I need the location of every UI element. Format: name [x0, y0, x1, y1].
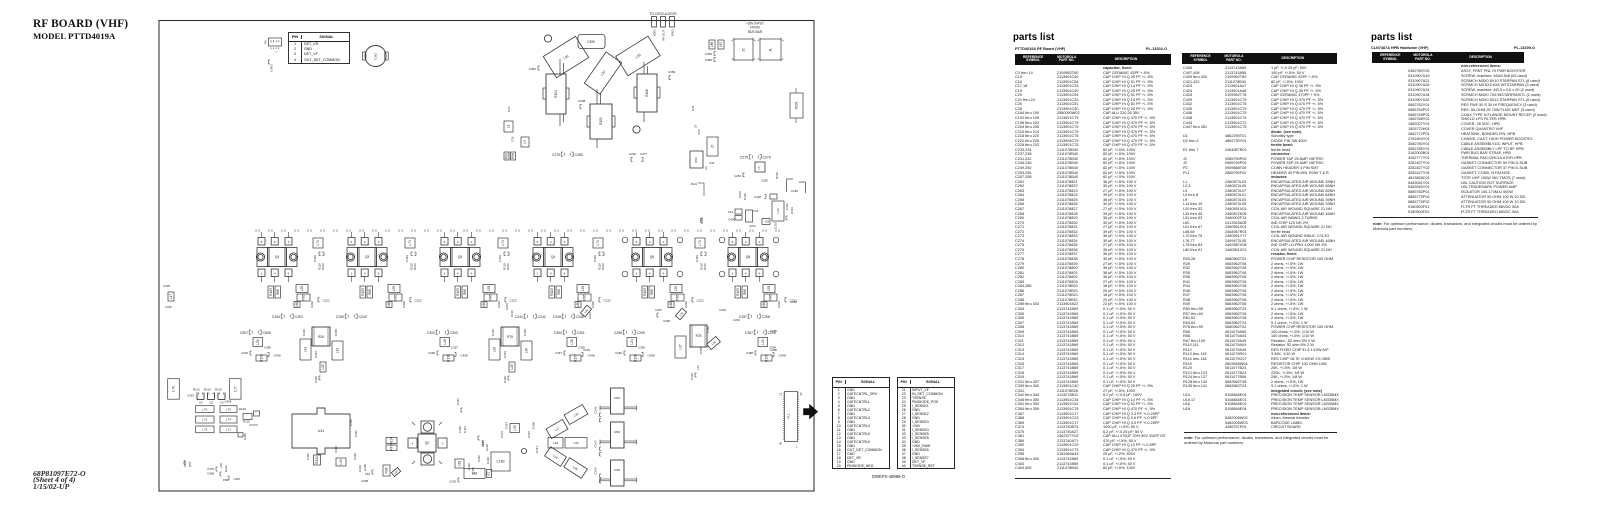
svg-text:R96: R96 — [188, 461, 192, 467]
svg-text:C182: C182 — [790, 300, 797, 304]
svg-text:3: 3 — [759, 240, 761, 244]
svg-text:L15: L15 — [321, 364, 325, 370]
svg-text:R141: R141 — [315, 456, 319, 464]
svg-text:C242: C242 — [538, 315, 546, 319]
svg-text:C401: C401 — [593, 255, 597, 262]
svg-text:C229: C229 — [449, 480, 456, 484]
svg-text:6: 6 — [759, 272, 761, 276]
svg-text:P2: P2 — [264, 40, 268, 44]
svg-text:L14: L14 — [696, 365, 700, 370]
svg-text:5: 5 — [261, 240, 263, 244]
svg-text:R60: R60 — [694, 157, 698, 163]
svg-text:R66: R66 — [557, 289, 561, 295]
svg-text:3: 3 — [471, 240, 473, 244]
svg-text:R138: R138 — [447, 354, 451, 362]
svg-text:L71: L71 — [226, 428, 231, 432]
svg-text:Q4: Q4 — [275, 255, 279, 259]
svg-text:L9: L9 — [694, 124, 698, 128]
svg-text:R125: R125 — [243, 420, 250, 424]
svg-text:L87: L87 — [393, 469, 399, 475]
svg-text:L87: L87 — [719, 42, 723, 48]
svg-text:L18: L18 — [553, 441, 558, 445]
svg-text:C333: C333 — [358, 465, 362, 472]
svg-text:3: 3 — [288, 240, 290, 244]
svg-text:C282: C282 — [761, 179, 768, 183]
svg-text:C238: C238 — [663, 319, 670, 323]
svg-text:C202: C202 — [684, 301, 688, 308]
svg-text:R116: R116 — [601, 263, 605, 270]
svg-text:C353: C353 — [503, 351, 507, 358]
svg-text:C401: C401 — [313, 255, 317, 262]
svg-text:1: 1 — [796, 445, 798, 449]
svg-text:R103: R103 — [736, 288, 740, 296]
svg-text:C357: C357 — [745, 331, 753, 335]
svg-text:L55: L55 — [765, 221, 770, 224]
svg-text:R65: R65 — [676, 294, 680, 300]
svg-text:C299: C299 — [637, 331, 645, 335]
svg-text:L73: L73 — [202, 428, 207, 432]
svg-text:R140: R140 — [260, 354, 264, 362]
svg-text:5: 5 — [636, 240, 638, 244]
svg-text:C401: C401 — [405, 255, 409, 262]
svg-text:L55: L55 — [392, 286, 396, 292]
svg-text:C193: C193 — [774, 222, 778, 229]
svg-text:C398: C398 — [532, 422, 536, 429]
svg-text:C246: C246 — [576, 315, 584, 319]
svg-text:C34: C34 — [709, 161, 715, 165]
svg-text:C339: C339 — [314, 376, 318, 383]
svg-text:R66: R66 — [650, 289, 654, 295]
svg-text:R124: R124 — [239, 407, 246, 411]
svg-text:+: + — [275, 50, 277, 54]
svg-text:C300: C300 — [554, 331, 562, 335]
svg-text:C187: C187 — [165, 305, 172, 309]
svg-text:C421: C421 — [463, 426, 467, 433]
svg-text:C401: C401 — [498, 255, 502, 262]
svg-text:R66: R66 — [463, 289, 467, 295]
svg-text:R116: R116 — [321, 263, 325, 270]
svg-text:C447: C447 — [456, 398, 460, 405]
svg-text:C202: C202 — [497, 301, 501, 308]
svg-text:C273: C273 — [500, 431, 504, 438]
svg-text:L55: L55 — [300, 286, 304, 292]
svg-text:L55: L55 — [767, 286, 771, 292]
svg-text:R66: R66 — [368, 289, 372, 295]
svg-text:C390: C390 — [705, 52, 713, 56]
svg-text:R65: R65 — [394, 294, 398, 300]
svg-text:TO CIRCULATOR: TO CIRCULATOR — [649, 12, 677, 16]
svg-text:L90: L90 — [219, 463, 223, 468]
svg-text:R137: R137 — [574, 354, 578, 362]
svg-text:L92: L92 — [339, 459, 343, 465]
svg-text:C426: C426 — [243, 433, 247, 440]
svg-text:C214: C214 — [588, 312, 592, 319]
svg-text:L74: L74 — [698, 240, 702, 246]
svg-text:J2: J2 — [742, 48, 746, 52]
svg-text:3: 3 — [378, 240, 380, 244]
svg-text:L86: L86 — [710, 42, 714, 48]
svg-text:BUS BAR: BUS BAR — [748, 30, 763, 34]
svg-text:R98: R98 — [385, 467, 389, 473]
svg-text:Q4: Q4 — [551, 255, 555, 259]
svg-text:6: 6 — [564, 272, 566, 276]
svg-text:4: 4 — [754, 39, 756, 43]
svg-text:C344: C344 — [594, 467, 598, 474]
svg-text:4: 4 — [550, 272, 552, 276]
svg-text:C362: C362 — [529, 67, 537, 71]
svg-text:C222: C222 — [510, 299, 518, 303]
svg-text:C4: C4 — [220, 401, 224, 405]
svg-text:L74: L74 — [408, 240, 412, 246]
svg-text:L74: L74 — [596, 240, 600, 246]
svg-text:R66: R66 — [276, 289, 280, 295]
svg-text:2: 2 — [274, 240, 276, 244]
svg-text:L60: L60 — [762, 302, 766, 308]
svg-text:C291: C291 — [583, 348, 591, 352]
svg-text:R105: R105 — [599, 117, 603, 125]
svg-text:C350: C350 — [523, 329, 527, 336]
svg-text:4: 4 — [649, 272, 651, 276]
svg-text:L76: L76 — [172, 386, 176, 392]
svg-text:C222: C222 — [697, 299, 705, 303]
svg-text:R103: R103 — [795, 101, 799, 109]
svg-text:4: 4 — [782, 39, 784, 43]
svg-text:21: 21 — [779, 392, 783, 396]
svg-text:R136: R136 — [634, 354, 638, 362]
svg-text:L74: L74 — [316, 240, 320, 246]
svg-text:C423: C423 — [187, 394, 194, 398]
svg-text:C36: C36 — [691, 105, 695, 111]
svg-text:C358: C358 — [349, 419, 353, 426]
svg-text:C458: C458 — [461, 354, 469, 358]
svg-text:L31: L31 — [563, 54, 570, 60]
svg-text:R91: R91 — [505, 153, 509, 159]
svg-text:L74: L74 — [226, 418, 231, 422]
svg-text:C209: C209 — [363, 464, 367, 471]
svg-text:C275: C275 — [740, 155, 748, 159]
svg-text:2: 2 — [457, 240, 459, 244]
svg-text:C276: C276 — [763, 155, 771, 159]
svg-text:L37: L37 — [679, 344, 683, 350]
svg-text:C407: C407 — [234, 477, 241, 481]
svg-text:R103: R103 — [361, 288, 365, 296]
svg-text:R96: R96 — [511, 153, 515, 159]
svg-text:C488: C488 — [746, 351, 753, 355]
svg-text:C458: C458 — [274, 354, 282, 358]
svg-text:L60: L60 — [482, 302, 486, 308]
svg-text:C457: C457 — [555, 351, 562, 355]
svg-text:C184: C184 — [791, 189, 798, 193]
svg-text:1: 1 — [444, 272, 446, 276]
svg-text:C241: C241 — [515, 315, 523, 319]
svg-text:C202: C202 — [310, 301, 314, 308]
svg-text:C136: C136 — [510, 310, 514, 317]
svg-text:C349: C349 — [302, 329, 306, 336]
svg-text:C279: C279 — [552, 153, 560, 157]
svg-text:C404: C404 — [225, 400, 232, 404]
svg-text:L84: L84 — [365, 472, 370, 476]
svg-text:3: 3 — [663, 240, 665, 244]
svg-text:C281: C281 — [734, 174, 741, 178]
svg-text:C481: C481 — [306, 453, 310, 460]
svg-text:L74: L74 — [501, 240, 505, 246]
svg-text:4: 4 — [364, 272, 366, 276]
svg-text:R135: R135 — [765, 354, 769, 362]
svg-text:C296: C296 — [614, 331, 622, 335]
svg-text:C222: C222 — [604, 299, 612, 303]
svg-text:J1: J1 — [769, 48, 773, 52]
svg-text:C398: C398 — [353, 453, 357, 460]
svg-text:C369: C369 — [668, 70, 676, 74]
svg-text:C365: C365 — [638, 346, 645, 350]
svg-text:C303: C303 — [450, 331, 458, 335]
svg-text:C9: C9 — [199, 401, 203, 405]
svg-text:R103: R103 — [550, 288, 554, 296]
svg-text:R79: R79 — [507, 335, 513, 339]
svg-text:L24: L24 — [630, 339, 634, 345]
svg-text:R65: R65 — [583, 294, 587, 300]
svg-text:6: 6 — [378, 272, 380, 276]
svg-text:L47: L47 — [169, 294, 173, 300]
svg-text:L19: L19 — [552, 454, 559, 460]
svg-text:C302: C302 — [427, 331, 435, 335]
svg-text:U11: U11 — [318, 429, 324, 433]
svg-text:C257: C257 — [739, 315, 747, 319]
svg-text:L26: L26 — [570, 339, 574, 345]
svg-text:C202: C202 — [777, 301, 781, 308]
svg-text:C342: C342 — [594, 406, 598, 413]
svg-text:4: 4 — [745, 272, 747, 276]
svg-text:1: 1 — [261, 272, 263, 276]
svg-text:L33: L33 — [513, 425, 517, 431]
svg-text:C290: C290 — [428, 351, 435, 355]
svg-text:4: 4 — [732, 39, 734, 43]
svg-text:Q3: Q3 — [365, 255, 369, 259]
svg-text:C13: C13 — [728, 210, 734, 214]
svg-text:C249: C249 — [359, 315, 367, 319]
svg-text:L15: L15 — [510, 364, 514, 370]
svg-text:40: 40 — [779, 441, 783, 445]
svg-text:C406: C406 — [458, 426, 462, 433]
svg-text:C294: C294 — [241, 351, 248, 355]
svg-text:L55: L55 — [581, 286, 585, 292]
svg-text:C353: C353 — [314, 351, 318, 358]
svg-text:C156: C156 — [738, 191, 742, 198]
svg-text:C277: C277 — [640, 152, 647, 156]
svg-text:C391: C391 — [785, 203, 789, 210]
svg-text:L29: L29 — [761, 339, 765, 345]
svg-text:R103: R103 — [456, 288, 460, 296]
svg-text:C506: C506 — [263, 331, 271, 335]
svg-text:L28: L28 — [443, 339, 447, 345]
svg-text:C8: C8 — [210, 401, 214, 405]
svg-text:C375: C375 — [207, 467, 214, 471]
svg-text:C202: C202 — [402, 301, 406, 308]
svg-text:Q6: Q6 — [650, 255, 654, 259]
svg-text:C216: C216 — [505, 303, 509, 310]
svg-text:C254: C254 — [272, 315, 280, 319]
svg-text:C237: C237 — [655, 308, 662, 312]
svg-text:RF OUT: RF OUT — [661, 29, 665, 40]
svg-text:L77: L77 — [233, 386, 237, 392]
svg-text:C16: C16 — [507, 106, 511, 112]
svg-text:L1: L1 — [507, 125, 511, 129]
svg-text:L5: L5 — [711, 145, 715, 149]
svg-text:L43: L43 — [776, 208, 780, 213]
svg-text:4: 4 — [758, 39, 760, 43]
svg-text:R78: R78 — [696, 334, 702, 338]
svg-text:C245: C245 — [553, 315, 561, 319]
svg-text:5: 5 — [537, 240, 539, 244]
svg-text:L40: L40 — [525, 348, 529, 354]
svg-text:C330: C330 — [486, 457, 490, 464]
svg-text:C196: C196 — [743, 193, 747, 200]
svg-text:2: 2 — [745, 240, 747, 244]
svg-text:3: 3 — [564, 240, 566, 244]
svg-text:C458: C458 — [588, 354, 596, 358]
svg-text:C222: C222 — [323, 299, 331, 303]
svg-text:R116: R116 — [506, 263, 510, 270]
svg-text:R103: R103 — [269, 288, 273, 296]
svg-text:C301: C301 — [577, 331, 585, 335]
svg-text:L9: L9 — [523, 140, 527, 144]
svg-text:L48: L48 — [472, 472, 478, 476]
svg-text:C196: C196 — [163, 284, 170, 288]
svg-text:C355: C355 — [699, 347, 703, 354]
svg-text:R65: R65 — [489, 294, 493, 300]
svg-text:C286: C286 — [770, 329, 777, 333]
svg-text:C18: C18 — [511, 136, 515, 142]
svg-text:C349: C349 — [491, 329, 495, 336]
svg-text:1: 1 — [754, 57, 756, 61]
svg-text:2: 2 — [550, 240, 552, 244]
svg-text:R63: R63 — [614, 430, 620, 434]
svg-text:C233: C233 — [719, 308, 726, 312]
svg-text:C339: C339 — [503, 376, 507, 383]
svg-text:R121: R121 — [691, 182, 698, 186]
svg-text:GND: GND — [670, 29, 674, 37]
svg-text:L42: L42 — [336, 348, 340, 354]
svg-text:L32: L32 — [600, 70, 607, 77]
svg-text:GND: GND — [652, 29, 656, 37]
svg-text:R152: R152 — [775, 172, 779, 179]
svg-text:C14: C14 — [753, 209, 759, 213]
svg-text:C357: C357 — [451, 346, 458, 350]
svg-text:C458: C458 — [779, 354, 787, 358]
svg-text:C208: C208 — [361, 479, 368, 483]
svg-text:L41: L41 — [304, 347, 308, 353]
svg-text:1: 1 — [537, 272, 539, 276]
svg-text:C180: C180 — [497, 460, 505, 464]
svg-text:R116: R116 — [413, 263, 417, 270]
svg-text:C507: C507 — [240, 331, 248, 335]
svg-text:R47: R47 — [390, 445, 394, 451]
svg-text:R112: R112 — [224, 465, 228, 472]
svg-text:L17: L17 — [554, 426, 561, 432]
svg-text:PL1: PL1 — [787, 413, 791, 419]
svg-text:R121: R121 — [193, 388, 200, 392]
svg-text:C218: C218 — [629, 152, 636, 156]
svg-text:R122: R122 — [204, 388, 211, 392]
svg-text:C394: C394 — [334, 446, 338, 453]
svg-text:6: 6 — [663, 272, 665, 276]
svg-text:C408: C408 — [207, 472, 214, 476]
svg-text:5: 5 — [732, 240, 734, 244]
svg-text:E7: E7 — [487, 471, 491, 475]
svg-text:C222: C222 — [415, 299, 423, 303]
svg-text:3: 3 — [732, 57, 734, 61]
svg-text:C389: C389 — [705, 58, 713, 62]
svg-text:C336: C336 — [690, 373, 694, 380]
svg-text:C424: C424 — [505, 422, 509, 429]
svg-text:C290: C290 — [615, 351, 622, 355]
svg-text:R103: R103 — [643, 288, 647, 296]
svg-text:C202: C202 — [591, 301, 595, 308]
svg-text:2: 2 — [364, 240, 366, 244]
svg-text:C381: C381 — [374, 53, 378, 61]
svg-text:C403: C403 — [270, 64, 274, 72]
svg-text:C448: C448 — [754, 195, 761, 199]
svg-text:L70: L70 — [202, 407, 207, 411]
svg-text:R104: R104 — [554, 90, 558, 98]
svg-text:C194: C194 — [790, 207, 794, 214]
svg-text:1: 1 — [782, 57, 784, 61]
svg-text:4: 4 — [412, 442, 414, 446]
svg-text:C470: C470 — [749, 224, 756, 228]
svg-text:R116: R116 — [703, 263, 707, 270]
svg-text:C343: C343 — [594, 440, 598, 447]
svg-text:R65: R65 — [769, 294, 773, 300]
svg-text:4: 4 — [457, 272, 459, 276]
svg-text:Q8: Q8 — [746, 255, 750, 259]
svg-text:Q2: Q2 — [425, 441, 429, 445]
svg-text:5: 5 — [351, 240, 353, 244]
svg-text:C458: C458 — [648, 354, 656, 358]
svg-text:6: 6 — [471, 272, 473, 276]
svg-text:Q5: Q5 — [458, 255, 462, 259]
svg-text:3: 3 — [758, 57, 760, 61]
svg-text:L35: L35 — [573, 441, 578, 445]
svg-text:C258: C258 — [762, 315, 770, 319]
svg-text:R66: R66 — [743, 289, 747, 295]
svg-text:1: 1 — [732, 272, 734, 276]
svg-text:5: 5 — [444, 240, 446, 244]
svg-text:R26: R26 — [318, 335, 324, 339]
svg-text:C395: C395 — [587, 40, 595, 44]
svg-text:C307: C307 — [477, 455, 481, 462]
svg-text:C369: C369 — [264, 346, 271, 350]
svg-text:1: 1 — [636, 272, 638, 276]
svg-text:L60: L60 — [576, 302, 580, 308]
svg-text:L75: L75 — [226, 407, 231, 411]
svg-text:L55: L55 — [674, 286, 678, 292]
svg-text:C253: C253 — [295, 315, 303, 319]
svg-text:L60: L60 — [295, 302, 299, 308]
svg-text:C232: C232 — [485, 444, 489, 451]
svg-text:C267: C267 — [527, 431, 531, 438]
svg-text:L36: L36 — [572, 465, 579, 471]
svg-text:C250: C250 — [336, 315, 344, 319]
svg-text:L60: L60 — [387, 302, 391, 308]
svg-text:20: 20 — [799, 392, 803, 396]
svg-text:C368: C368 — [578, 99, 586, 103]
svg-text:L30: L30 — [256, 339, 260, 345]
svg-text:C409: C409 — [728, 218, 735, 222]
svg-text:R134: R134 — [390, 436, 394, 444]
svg-text:C341: C341 — [535, 446, 539, 453]
svg-text:4: 4 — [274, 272, 276, 276]
svg-text:R123: R123 — [215, 388, 222, 392]
